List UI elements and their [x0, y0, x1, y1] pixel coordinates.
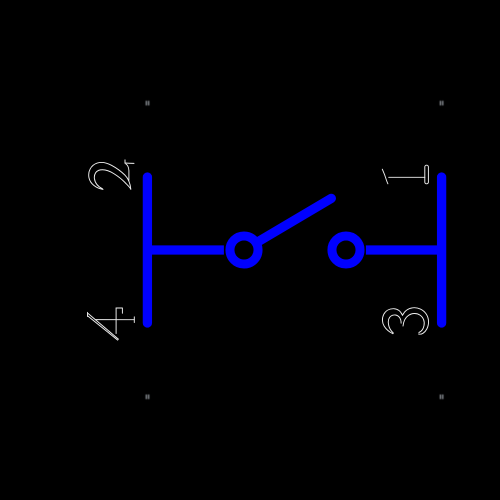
switch SW1: right contact bar (pins 1-3 common): [437, 177, 446, 323]
pin number 3 (rotated engraving digit): [382, 308, 428, 334]
pin 2 endpoint marker (top-left): [146, 101, 149, 106]
pin 4 endpoint marker (bottom-left): [146, 395, 149, 400]
switch contact circle B: [332, 236, 360, 264]
wire: contact B to right bar: [366, 245, 442, 254]
switch SW1: left contact bar (pins 2-4 common): [143, 177, 152, 323]
pin 3 endpoint marker (bottom-right): [440, 395, 443, 400]
pin number 2 (rotated engraving digit): [89, 160, 134, 190]
switch lever (open position): [257, 198, 331, 242]
pin number 1 (rotated engraving digit): [382, 165, 428, 184]
wire: left bar to pivot contact A: [147, 245, 224, 254]
switch contact circle A (pivot): [230, 236, 258, 264]
pin 1 endpoint marker (top-right): [440, 101, 443, 106]
pin number 4 (rotated engraving digit): [88, 308, 135, 340]
